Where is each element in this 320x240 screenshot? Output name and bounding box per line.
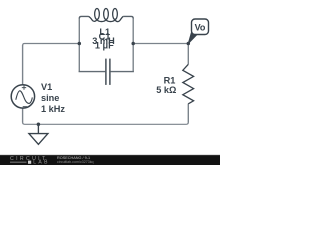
- capacitor C1: [106, 59, 110, 85]
- wire R1 top lead: [187, 44, 189, 64]
- wire bottom rail: [23, 122, 189, 124]
- node junction dots: [37, 42, 190, 126]
- svg-text:1 μF: 1 μF: [95, 40, 114, 50]
- wire middle-right horizontal run: [133, 43, 188, 45]
- svg-text:Vo: Vo: [195, 22, 206, 32]
- inductor L1: [88, 9, 123, 22]
- watermark text: [57, 156, 94, 164]
- voltage source V1: [11, 85, 34, 108]
- wire R1 bottom lead: [187, 104, 189, 123]
- resistor R1: [183, 64, 194, 104]
- label L1: [92, 27, 115, 46]
- label C1: [95, 31, 114, 50]
- wire tank bottom left: [79, 71, 106, 73]
- label V1: [41, 82, 65, 114]
- ground: [29, 124, 48, 144]
- wire V1 bottom lead: [22, 108, 24, 123]
- wire LC tank left vertical: [78, 18, 80, 72]
- watermark logo CircuitLab: [10, 156, 50, 166]
- svg-text:sine: sine: [41, 93, 59, 103]
- watermark bar: [0, 155, 220, 165]
- wire LC tank right vertical: [132, 18, 134, 72]
- svg-text:5 kΩ: 5 kΩ: [156, 85, 176, 95]
- wire LC tank top edge left: [79, 16, 88, 18]
- svg-text:1 kHz: 1 kHz: [41, 104, 65, 114]
- label R1: [156, 76, 176, 95]
- wire V1 top lead: [22, 45, 24, 85]
- svg-text:LAB: LAB: [33, 160, 50, 165]
- wire tank bottom right: [111, 71, 134, 73]
- svg-text:V1: V1: [41, 82, 52, 92]
- wire top-left horizontal run: [23, 44, 80, 46]
- svg-text:circuitlab.com/c3273kq: circuitlab.com/c3273kq: [57, 160, 94, 164]
- wire LC tank top edge right: [123, 16, 133, 18]
- node flag Vo: [188, 19, 208, 44]
